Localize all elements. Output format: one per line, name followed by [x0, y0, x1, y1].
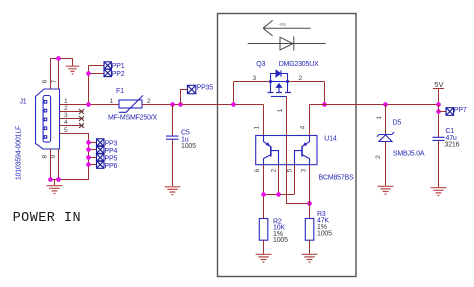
junction pin6 tie — [261, 192, 266, 197]
svg-text:6: 6 — [254, 168, 261, 172]
wire R2 to ground — [263, 240, 265, 254]
resistor R3 — [305, 219, 314, 241]
wire Q3 gate net to R3 — [287, 97, 310, 204]
earth ground (top shield) — [66, 66, 80, 74]
junction shield pin9 — [56, 177, 61, 182]
svg-text:4: 4 — [64, 119, 68, 126]
svg-text:1005: 1005 — [273, 237, 288, 244]
mosfet Q3 — [268, 70, 292, 96]
junction 5V corner — [436, 102, 441, 107]
svg-text:BCM857BS: BCM857BS — [319, 174, 355, 181]
wire J1 pin2 stub — [60, 111, 84, 113]
svg-text:J1: J1 — [20, 98, 27, 105]
svg-text:2: 2 — [271, 168, 278, 172]
wire U14 pin4 drop — [309, 105, 311, 136]
svg-text:PP1: PP1 — [112, 63, 125, 70]
test point PP35 — [187, 85, 195, 93]
block border box — [218, 14, 357, 277]
capacitor C1 — [433, 137, 445, 140]
connector J1 body — [36, 89, 60, 149]
svg-text:1: 1 — [277, 108, 284, 112]
svg-text:D5: D5 — [393, 120, 402, 127]
svg-text:1: 1 — [110, 98, 114, 105]
svg-text:3: 3 — [253, 75, 257, 82]
wire D5 to ground — [385, 142, 387, 186]
junction PP4 — [86, 147, 91, 152]
no-connect X pin2 — [79, 109, 84, 114]
ground stem (J1) — [54, 180, 56, 186]
wire J1 shield pin8 — [50, 149, 52, 180]
wire C1 to ground — [438, 140, 440, 187]
wire J1 shield pin6 — [50, 59, 52, 90]
test point PP4 — [97, 146, 105, 154]
wire 5V down to C1 — [438, 105, 440, 138]
svg-text:POWER IN: POWER IN — [13, 211, 81, 226]
wire U14 pin6 to R2 — [263, 165, 265, 219]
svg-text:1005: 1005 — [181, 143, 196, 150]
wire base tie horizontal — [264, 194, 295, 196]
svg-text:PP7: PP7 — [454, 107, 467, 114]
junction PP35 tap — [178, 102, 183, 107]
current direction arrow annotation — [263, 20, 311, 36]
junction PP5 — [86, 155, 91, 160]
wire J1 shield pin9 — [58, 149, 60, 180]
wire J1 pin5 to GND net — [51, 134, 89, 180]
svg-text:F1: F1 — [116, 88, 124, 95]
junction C5 tap — [170, 102, 175, 107]
svg-text:3216: 3216 — [445, 142, 460, 149]
test point PP6 — [97, 161, 105, 169]
ground (J1) — [47, 186, 63, 194]
power symbol 5V — [433, 89, 444, 105]
svg-text:PP4: PP4 — [105, 148, 118, 155]
terminal dot Q3 source — [269, 80, 272, 83]
junction D5 tap — [383, 102, 388, 107]
junction PP7 tap — [436, 109, 441, 114]
junction VBUS at J1 pin1 — [86, 102, 91, 107]
ground (D5) — [378, 186, 394, 194]
svg-text:9: 9 — [50, 155, 57, 159]
annotation diode — [248, 36, 326, 50]
svg-text:2: 2 — [375, 155, 382, 159]
wire U14 pin5 drop — [294, 165, 296, 195]
wire shield top to earth ground — [51, 59, 73, 66]
svg-text:1005: 1005 — [317, 231, 332, 238]
wire U14 pin2 drop — [278, 165, 280, 195]
ground (C5) — [165, 187, 181, 195]
wire Q3 source horizontal — [234, 81, 271, 83]
wire U14 pin1 drop — [263, 105, 265, 136]
svg-text:PP2: PP2 — [112, 71, 125, 78]
wire Q3 drain horizontal — [288, 81, 325, 83]
svg-text:PP6: PP6 — [105, 163, 118, 170]
svg-text:1: 1 — [64, 98, 68, 105]
svg-text:2: 2 — [147, 98, 151, 105]
svg-text:SMBJ5.0A: SMBJ5.0A — [393, 150, 425, 157]
zener diode D5 — [377, 132, 394, 141]
junction pin2 tie — [276, 192, 281, 197]
wire output rail to 5V — [310, 104, 439, 106]
svg-text:2: 2 — [64, 105, 68, 112]
svg-text:PP35: PP35 — [197, 85, 214, 92]
junction shield pin8 — [48, 177, 53, 182]
wire PP35 branch — [181, 90, 188, 105]
arrow left PNP emitter — [266, 142, 271, 146]
wire D5 branch — [385, 105, 387, 135]
junction PP3 — [86, 140, 91, 145]
svg-text:5: 5 — [64, 127, 68, 134]
wire PP7 tap — [439, 111, 447, 113]
test point PP2 — [104, 69, 111, 76]
svg-text:PP3: PP3 — [105, 141, 118, 148]
svg-text:7: 7 — [51, 79, 58, 83]
wire C5 to ground — [172, 139, 174, 186]
wire J1 pin1 to F1 (VBUS) — [60, 104, 120, 106]
svg-text:2: 2 — [299, 75, 303, 82]
svg-text:8: 8 — [41, 155, 48, 159]
wire Q3 drain vertical — [324, 82, 326, 105]
svg-text:-0V: -0V — [279, 22, 287, 28]
svg-text:PP5: PP5 — [105, 156, 118, 163]
svg-text:MF-MSMF250/X: MF-MSMF250/X — [108, 115, 157, 122]
svg-text:10103594-0001LF: 10103594-0001LF — [16, 126, 23, 180]
capacitor C5 — [166, 136, 179, 139]
no-connect X pin3 — [79, 116, 84, 121]
wire U14 pin3 to R3 — [309, 165, 311, 219]
svg-text:6: 6 — [42, 79, 49, 83]
svg-text:4: 4 — [300, 125, 307, 129]
ground (C1) — [431, 188, 447, 196]
wire J1 shield pin7 — [58, 59, 60, 90]
wire F1 to U14 pin1 (VBUS_F rail) — [142, 104, 264, 106]
svg-text:1: 1 — [376, 116, 383, 120]
terminal dot Q3 drain — [286, 80, 289, 83]
svg-text:3: 3 — [300, 168, 307, 172]
test point PP5 — [97, 154, 105, 162]
svg-text:1: 1 — [254, 125, 261, 129]
fuse F1 — [119, 95, 143, 112]
junction PP6 — [86, 162, 91, 167]
wire C5 branch top — [172, 105, 174, 137]
ground (R2) — [256, 254, 272, 262]
wires PP3-PP6 taps — [89, 143, 97, 165]
junction PP2 tap — [86, 71, 91, 76]
wire J1 pin4 stub — [60, 125, 84, 127]
svg-text:5: 5 — [287, 168, 294, 172]
svg-text:3: 3 — [64, 112, 68, 119]
junction gate to R3 — [307, 201, 312, 206]
svg-text:5V: 5V — [434, 80, 443, 89]
resistor R2 — [259, 219, 268, 241]
test point PP1 — [104, 62, 111, 69]
test point PP7 — [446, 108, 454, 116]
junction shield top — [56, 56, 61, 61]
junction Q3 drain — [322, 102, 327, 107]
transistor array U14 — [256, 136, 317, 165]
junction Q3 source — [231, 102, 236, 107]
svg-text:U14: U14 — [324, 136, 337, 143]
arrow right PNP emitter — [303, 142, 308, 146]
wire Q3 source vertical — [233, 82, 235, 105]
test point PP3 — [97, 139, 105, 147]
ground (R3) — [302, 254, 318, 262]
wire J1 pin3 stub — [60, 118, 84, 120]
svg-text:DMG2305UX: DMG2305UX — [279, 61, 319, 68]
wire PP1/PP2 tap to VBUS — [89, 66, 105, 105]
wire R3 to ground — [309, 240, 311, 254]
svg-text:Q3: Q3 — [256, 61, 265, 68]
no-connect X pin4 — [79, 123, 84, 128]
